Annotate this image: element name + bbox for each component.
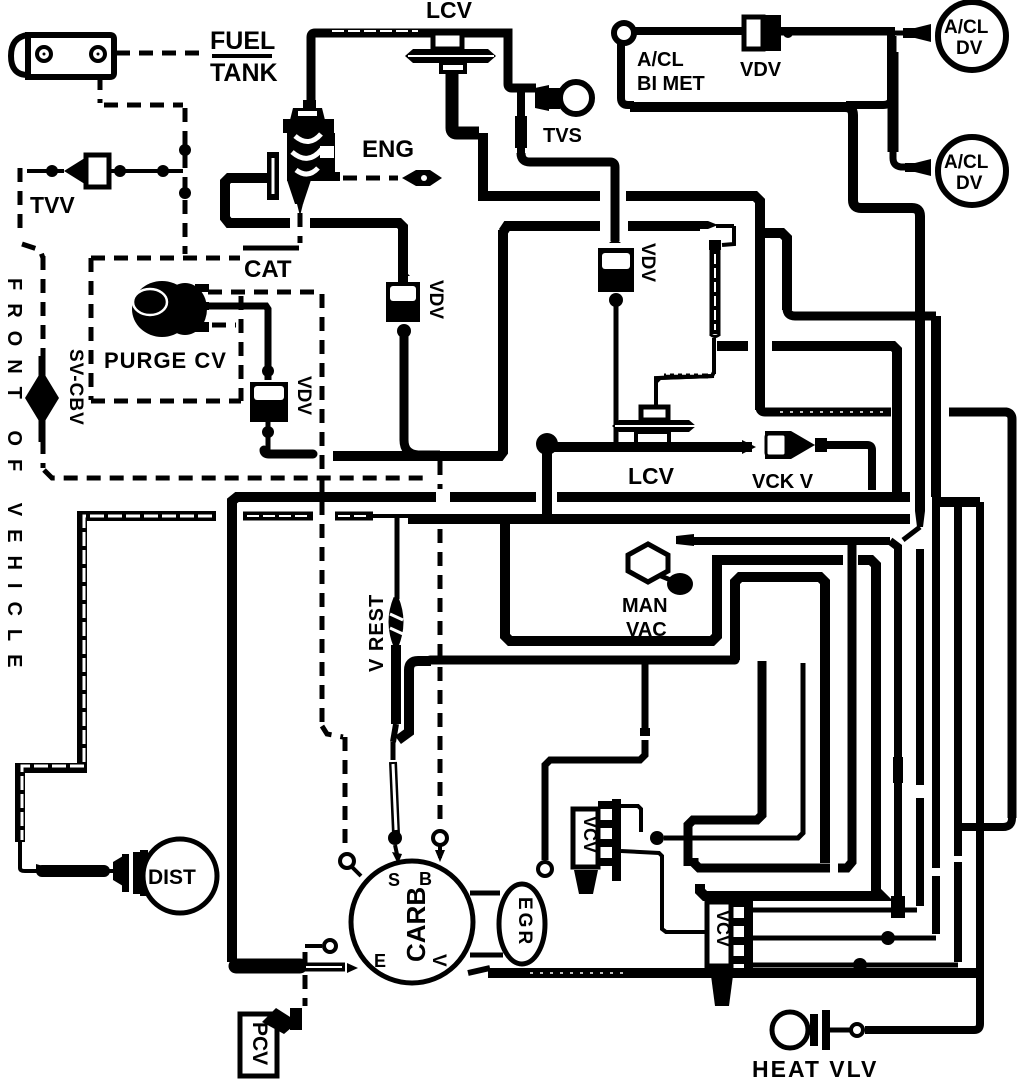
component FUEL TANK canister	[11, 35, 114, 77]
wire man vac nozzle line to VCV2	[676, 534, 905, 918]
svg-text:ENG: ENG	[362, 136, 414, 163]
dashed wire canister down to TVV junction	[100, 76, 185, 254]
svg-text:VCV: VCV	[580, 816, 600, 853]
label FUEL TANK	[210, 27, 278, 87]
svg-text:VDV: VDV	[293, 376, 314, 415]
svg-text:A/CL: A/CL	[637, 49, 684, 71]
wire x958 bundle line	[953, 502, 963, 962]
hose tube carb E	[303, 963, 358, 973]
svg-text:FUEL: FUEL	[210, 27, 275, 55]
label VDV (purge)	[293, 376, 314, 415]
label SV-CBV	[65, 349, 86, 426]
wire rail1 manifold across	[232, 497, 910, 962]
wire VCV1 wire2	[621, 851, 706, 932]
label FRONT OF VEHICLE	[3, 278, 25, 680]
wire V REST line down from tube	[395, 518, 400, 599]
svg-text:E: E	[374, 951, 386, 971]
hose tube mid segment B	[243, 512, 313, 521]
component VCV2	[707, 896, 753, 1006]
svg-text:CARB: CARB	[401, 887, 431, 962]
component SV-CBV check valve	[25, 356, 59, 442]
wire x936 bundle line	[931, 502, 941, 934]
svg-text:HEAT VLV: HEAT VLV	[752, 1056, 878, 1080]
dashed wire purge to CARB S branch	[322, 294, 361, 876]
svg-text:PCV: PCV	[248, 1022, 271, 1065]
dashed wire fuel tank to canister	[116, 51, 205, 56]
wire VCV2 top wire	[753, 908, 917, 913]
svg-text:V: V	[428, 954, 449, 967]
svg-text:VCK V: VCK V	[752, 471, 814, 493]
wire hose B thin branch from LCV vertical	[758, 233, 980, 502]
svg-text:B: B	[419, 869, 432, 889]
component ACV valve	[267, 100, 340, 216]
hose EGR bottom to bundle	[468, 968, 978, 973]
svg-text:S: S	[388, 870, 400, 890]
dashed wire CAT stub	[298, 213, 303, 243]
dashed wire PCV hidden line	[303, 952, 308, 1006]
dashed wire ENG arrow	[320, 176, 398, 181]
component EGR	[499, 884, 545, 964]
component PCV	[240, 1008, 302, 1076]
label VCK V	[752, 471, 814, 493]
svg-text:A/CL: A/CL	[944, 17, 989, 38]
wire VDV3 down to rail	[262, 422, 313, 454]
hose stub to LCV2	[656, 250, 720, 406]
svg-text:VDV: VDV	[740, 59, 782, 81]
wire chainB manvac loop2	[694, 577, 830, 868]
label LCV top	[426, 0, 473, 23]
component VDV top valve	[740, 15, 782, 81]
svg-text:TANK: TANK	[210, 59, 278, 87]
svg-text:TVV: TVV	[30, 192, 75, 218]
label ENG	[362, 136, 414, 163]
wire V REST to carb S	[388, 645, 402, 864]
svg-text:MAN: MAN	[622, 595, 668, 617]
label V REST	[366, 594, 388, 672]
wire VCV1 wire1 riser	[621, 663, 803, 845]
svg-text:VCV: VCV	[713, 910, 733, 947]
hose tube far-left long run	[20, 516, 216, 873]
component A/CL DV circle 2	[938, 137, 1006, 205]
component LCV2 mid valve	[612, 340, 714, 444]
wire rail2 across	[408, 514, 910, 524]
component A/CL DV circle 1	[938, 2, 1006, 70]
wire chainA manvac loop	[505, 521, 881, 896]
wire TVS down to VDV4	[521, 90, 615, 241]
component A/CL BI MET box	[614, 23, 891, 105]
wire bar2 ACV upper run	[503, 221, 734, 250]
label HEAT VLV	[752, 1056, 878, 1080]
component VCV1	[573, 799, 621, 894]
svg-text:EGR: EGR	[514, 897, 535, 947]
svg-text:DV: DV	[956, 38, 983, 59]
component VDV center (VDV2)	[386, 270, 420, 322]
component V REST restrictor	[390, 598, 403, 646]
hose tube mid segment C	[335, 512, 410, 521]
label VDV (center)	[425, 280, 446, 319]
wire ACV U-line	[225, 178, 403, 283]
component HEAT VLV	[772, 1010, 863, 1050]
wire V REST right branch riser	[398, 661, 431, 740]
label PURGE CV	[104, 348, 227, 373]
wire LCV valve stem down	[452, 72, 483, 188]
dashed box PURGE CV	[91, 258, 241, 401]
dashed wire SV-CBV vertical	[41, 256, 46, 468]
svg-text:A/CL: A/CL	[944, 152, 989, 173]
wire LCV line bar1 and down right side	[483, 186, 1012, 827]
wire VCV2 feeds verticals	[915, 549, 925, 906]
component VDV4 under TVS	[598, 238, 634, 292]
component TVV valve	[64, 155, 109, 187]
svg-text:VDV: VDV	[637, 243, 658, 282]
wire hose C LCV2 junction to rail1	[717, 346, 897, 492]
component LCV top valve	[405, 33, 496, 72]
component CARB	[351, 861, 473, 983]
svg-text:BI MET: BI MET	[637, 73, 705, 95]
wire carb B hidden line end	[433, 831, 447, 862]
component DIST circle	[143, 839, 217, 913]
wire hanging connector line x852	[838, 545, 852, 868]
wire VCK V output to rail1	[827, 445, 872, 490]
dashed wire purge top nipple	[208, 290, 316, 295]
hose lower left manifold to carb E	[236, 966, 328, 969]
svg-text:LCV: LCV	[628, 463, 675, 489]
component PURGE CV valve	[132, 281, 209, 337]
wire LCV top hose to TVS	[311, 31, 536, 105]
svg-text:PURGE CV: PURGE CV	[104, 348, 227, 373]
wire VCV2 bottom wire	[753, 958, 958, 972]
wire x980 heat valve line	[865, 502, 980, 1030]
wire LCV rail with dot	[536, 433, 756, 516]
component VDV purge (VDV3)	[250, 382, 288, 422]
wire carb-egr connectors	[470, 893, 503, 955]
label MAN VAC	[622, 595, 668, 641]
label CAT	[243, 248, 299, 283]
label LCV mid	[628, 463, 675, 489]
wire bar to right bundle (y660)	[430, 656, 735, 665]
wire rail y456 right part	[333, 230, 503, 456]
wire carb E stub with port ring	[305, 940, 336, 952]
svg-text:SV-CBV: SV-CBV	[65, 349, 86, 426]
dashed wire carb V hidden line	[438, 461, 443, 820]
wire VDV4 down to LCV rail	[609, 293, 623, 444]
wire junction down to A/CL DV 2	[893, 36, 931, 176]
wire TVV horizontal	[27, 144, 191, 199]
dashed boundary line horizontal	[44, 470, 430, 478]
svg-text:V REST: V REST	[366, 594, 388, 672]
wire VDV2 down to rail	[397, 324, 440, 455]
dashed wire left of TVV	[20, 168, 43, 258]
wire purge middle nipple to VDV	[207, 306, 274, 380]
component MAN VAC	[628, 544, 693, 595]
svg-text:FRONT OF VEHICLE: FRONT OF VEHICLE	[3, 278, 25, 680]
svg-text:LCV: LCV	[426, 0, 473, 23]
hose A acl box to right bundle	[630, 101, 925, 540]
svg-text:TVS: TVS	[543, 125, 582, 147]
wire VDV to A/CL DV 1	[781, 24, 931, 42]
svg-text:CAT: CAT	[244, 256, 292, 283]
wire VCV2 middle wire	[753, 931, 936, 945]
svg-text:DV: DV	[956, 173, 983, 194]
component VCK V	[765, 431, 827, 459]
label TVV	[30, 192, 75, 218]
wire ENG arrow	[402, 170, 442, 186]
component TVS	[535, 82, 592, 114]
label TVS	[543, 125, 582, 147]
svg-text:VDV: VDV	[425, 280, 446, 319]
wire EGR feed from bar	[538, 662, 650, 876]
svg-text:DIST: DIST	[148, 866, 196, 889]
component DIST bellows connector	[113, 850, 148, 896]
label VDV4	[637, 243, 658, 282]
